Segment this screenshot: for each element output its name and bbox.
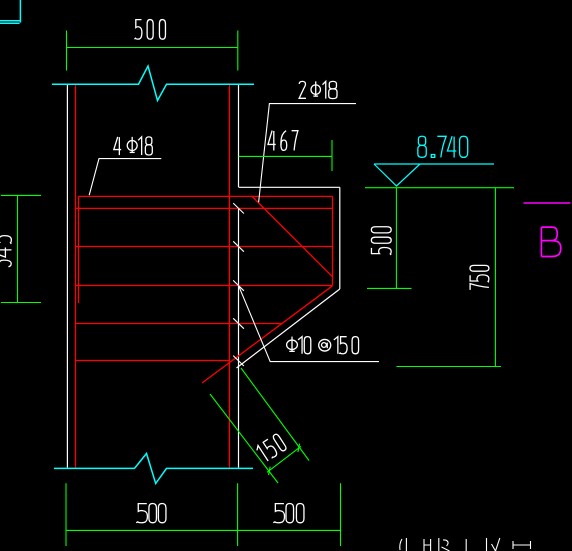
dimension 467: right tick — [331, 140, 333, 171]
dimension 345 (left): ticks — [1, 195, 41, 302]
rebar 4Φ18 vertical leg (red) — [78, 196, 80, 303]
section mark B: magenta letter — [541, 227, 560, 256]
dimension 750: bottom tick line — [396, 366, 501, 368]
label 4Φ18: leader (white) — [89, 159, 161, 196]
bent bar diagonal upper (red 45°) — [252, 196, 333, 276]
dimension 750: rotated text — [470, 265, 489, 290]
break line (top, cyan with zigzag) — [52, 66, 254, 101]
bar cut mark at stirrup 4 (white slash) — [233, 280, 244, 290]
column rebar left (red) — [75, 85, 77, 468]
title text fragment 4 (clipped at bottom) — [465, 539, 467, 551]
elevation mark 8.740: text — [418, 136, 425, 145]
dimension 467: dimension line — [239, 155, 332, 157]
corbel rebar right vertical (red) — [332, 196, 334, 285]
dimension 500 (top): dimension line — [67, 47, 238, 49]
stirrup 5 (red) — [76, 323, 282, 325]
bottom dimension 500 (left) text — [136, 504, 147, 523]
title text fragment 2 (clipped at bottom) — [424, 539, 431, 551]
stirrup 4 (red) — [76, 285, 333, 287]
dimension 150 (diagonal): dimension line — [267, 446, 301, 472]
stirrup 2 (red) — [76, 207, 333, 209]
corbel outline bottom diagonal (white) — [237, 289, 340, 368]
viewport corner marker (cyan, top-left) — [0, 0, 21, 23]
title text fragment 6 (clipped at bottom) — [513, 541, 531, 549]
bottom dimensions: extension ticks — [66, 483, 341, 546]
corbel rebar top (red) — [79, 195, 333, 197]
bent bar diagonal lower (red) — [202, 286, 333, 383]
dimension 750: line — [494, 188, 496, 367]
level reference line (green) — [365, 187, 514, 189]
label 2Φ18: text — [299, 81, 306, 98]
break line (bottom, cyan with zigzag) — [54, 454, 253, 484]
dimension 150 (diagonal): extension line lower — [210, 394, 278, 483]
label 4Φ18: text — [114, 137, 121, 150]
bottom dimensions: dimension line — [66, 529, 341, 531]
elevation mark 8.740: cyan triangle — [374, 164, 420, 186]
title text fragment 3 (clipped at bottom) — [439, 538, 450, 551]
column left edge (white) — [66, 85, 68, 468]
stirrup 3 (red) — [76, 246, 333, 248]
bottom dimension 500 (right) text — [273, 504, 284, 523]
column rebar right (red) — [228, 85, 230, 468]
stirrup 6 (red) — [76, 360, 230, 362]
column right edge (white, broken at corbel) — [238, 85, 240, 468]
bar cut mark at stirrup 3 (white slash) — [233, 241, 244, 251]
dimension 500 (right vertical): line — [395, 188, 397, 288]
bar cut mark at stirrup 5 (white slash) — [233, 318, 244, 328]
dimension 150 (diagonal): rotated text — [255, 433, 287, 463]
dimension 500 (right vertical): rotated text — [371, 227, 391, 255]
dimension 345 (left): line — [17, 195, 19, 302]
label Φ10@150: text — [291, 337, 293, 352]
bar cut mark at stirrup 2 (white slash) — [233, 203, 244, 213]
title text fragment 1 (clipped at bottom) — [400, 538, 407, 551]
corbel outline top (white) — [239, 186, 340, 188]
dimension 500 (top): text — [134, 20, 142, 39]
label Φ10@150: leader (white) — [239, 286, 379, 362]
elevation mark 8.740: cyan line — [374, 163, 494, 165]
label 2Φ18: leader (white) — [259, 104, 356, 203]
corbel outline right (white) — [339, 187, 341, 289]
dimension 150 (diagonal): end ticks — [269, 444, 300, 475]
dimension 467: text — [268, 131, 276, 145]
dimension 345 (left): rotated text (clipped) — [0, 236, 11, 267]
section mark B: magenta line — [524, 202, 571, 204]
dimension 500 (right vertical): bottom tick — [367, 287, 412, 289]
dimension 500 (top): extension ticks — [67, 31, 238, 71]
bar cut mark at stirrup 6 (white slash) — [233, 356, 244, 366]
title text fragment 5 (clipped at bottom) — [487, 538, 500, 551]
dimension 150 (diagonal): extension line upper — [241, 368, 309, 461]
